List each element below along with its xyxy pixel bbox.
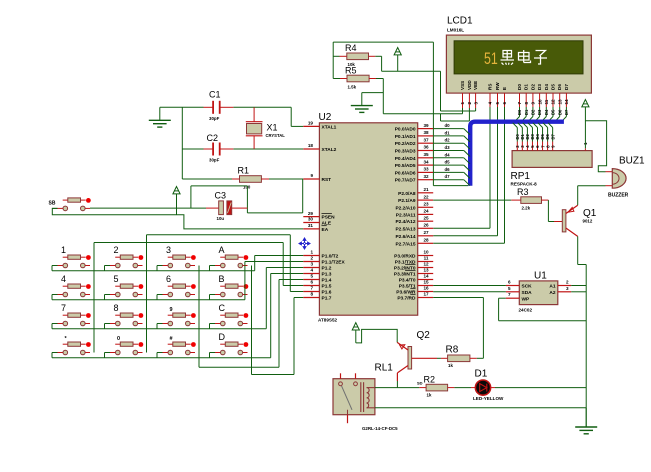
U2 pin 32 P0.7/AD7 [418,179,434,181]
svg-text:B: B [219,274,225,284]
svg-text:D3: D3 [537,109,542,115]
ground (C1/C2 common) [159,107,161,120]
svg-text:P3.7/RD: P3.7/RD [397,296,416,302]
svg-text:P2.2/A10: P2.2/A10 [395,205,415,211]
U2 pin 37 P0.2/AD2 [418,142,434,144]
resistor R1 [182,178,232,180]
wire keypad row rail 2 to P1.1 [51,295,53,300]
U2 pin 12 P3.2/INT0 [418,267,434,269]
power terminal VCC (RP1) [582,100,589,107]
U2 pin 1 P1.0/T2 [303,255,319,257]
svg-text:3: 3 [473,102,478,105]
svg-text:2.2k: 2.2k [522,206,531,211]
svg-text:RESPACK-8: RESPACK-8 [511,182,538,187]
svg-text:0: 0 [117,336,120,342]
wire VCC to buzzer [585,121,606,172]
svg-text:SD: SD [417,381,423,386]
LCD pin D3 [539,93,541,107]
capacitor C3 [206,207,219,209]
svg-text:27: 27 [423,230,429,235]
svg-text:D6: D6 [557,84,562,90]
wire keypad row rail 3 to P1.2 [51,324,53,329]
svg-text:P3.0/RXD: P3.0/RXD [394,254,416,260]
svg-text:6: 6 [502,102,507,105]
svg-text:35: 35 [423,152,429,157]
U1 pin 5 SDA wire to P3.6 [433,291,506,293]
U2 pin 28 P2.7/A15 [418,242,434,244]
LCD pin D7 [565,93,567,107]
svg-text:30: 30 [308,217,314,222]
U2 pin 11 P3.1/TXD [418,261,434,263]
wire R4 junction [381,56,383,71]
svg-text:11: 11 [424,256,429,261]
svg-text:D4: D4 [544,84,549,90]
svg-text:D3: D3 [537,84,542,90]
U2 pin 4 P1.3 [303,273,319,275]
svg-text:d4: d4 [445,152,451,157]
RP1 pin 7 net D5 [542,142,544,151]
U2 pin 21 P2.0/A8 [418,192,434,194]
RP1 pin 1 common to VCC [584,148,586,150]
svg-text:#: # [170,336,173,342]
LCD pin D0 [519,93,521,107]
U2 pin 31 EA [303,228,319,230]
U2 pin 33 P0.6/AD6 [418,171,434,173]
wire R3 to Q1 base [547,200,549,221]
svg-text:C1: C1 [209,90,221,100]
svg-text:XTAL1: XTAL1 [322,124,337,130]
U2 pin 7 P1.6 [303,291,319,293]
svg-text:P1.2: P1.2 [322,266,332,272]
U2 pin 30 ALE [303,222,319,224]
crystal X1 [253,107,255,121]
wire P0.5 to bus, net d5 [433,164,464,166]
svg-text:D0: D0 [517,84,522,90]
svg-text:12: 12 [551,99,556,105]
buzzer BUZ1 [606,171,613,173]
U2 pin 16 P3.6/WR [418,291,434,293]
wire reset node box [302,179,304,213]
svg-text:U1: U1 [534,271,547,282]
push button key 2 [110,265,116,267]
bus (blue data bus) [470,122,564,186]
LCD pin D6 [559,93,561,107]
svg-text:P0.3/AD3: P0.3/AD3 [395,149,416,155]
svg-text:P3.4/T0: P3.4/T0 [399,278,416,284]
svg-text:D2: D2 [530,84,535,90]
svg-text:3: 3 [566,286,569,291]
svg-text:9: 9 [170,307,173,313]
svg-text:A1: A1 [549,284,555,290]
svg-text:7: 7 [517,102,522,105]
svg-text:R3: R3 [517,187,529,197]
svg-text:9: 9 [531,102,536,105]
svg-text:D7: D7 [564,109,569,115]
U1 pin 6 SCK wire to P3.5 [433,285,506,287]
LCD pin D1 [525,93,527,107]
svg-text:D1: D1 [475,369,488,380]
origin marker (blue compass) [299,238,310,249]
transistor Q2 [408,347,412,370]
svg-text:8: 8 [524,102,529,105]
svg-text:P1.7: P1.7 [322,296,332,302]
svg-text:11: 11 [544,99,549,104]
svg-text:8: 8 [310,292,313,297]
svg-text:CRYSTAL: CRYSTAL [266,133,286,138]
svg-text:C3: C3 [215,191,227,201]
resistor R4 [333,55,339,57]
wire VSS run [383,113,462,115]
svg-text:31: 31 [308,223,314,228]
wire keypad column 3 to P1.4 [198,266,200,368]
wire relay bottom row [375,407,586,409]
svg-text:C2: C2 [207,133,219,143]
resistor R5 [333,78,340,80]
svg-text:9: 9 [310,173,313,178]
svg-text:7: 7 [310,286,313,291]
U2 pin 3 P1.2 [303,267,319,269]
svg-text:SB: SB [49,201,56,207]
svg-text:P1.4: P1.4 [322,278,332,284]
svg-text:1: 1 [310,250,313,255]
svg-text:BUZ1: BUZ1 [619,156,645,167]
svg-text:P1.0/T2: P1.0/T2 [322,254,339,260]
svg-text:P0.7/AD7: P0.7/AD7 [395,178,416,184]
svg-text:RS: RS [488,84,493,90]
wire VEE run [440,71,442,111]
svg-text:2: 2 [566,280,569,285]
wire C2 row to XTAL2 [182,148,203,150]
svg-text:37: 37 [423,137,429,142]
LED D1 LED-YELLOW [471,387,475,389]
svg-text:RL1: RL1 [375,363,394,374]
svg-text:2: 2 [310,256,313,261]
svg-text:33: 33 [423,167,429,172]
wire keypad column 2 to P1.6 [146,235,148,353]
U2 pin 22 P2.1/A9 [418,199,434,201]
push button key D [215,352,221,354]
U2 pin 35 P0.4/AD4 [418,157,434,159]
RP1 pin 4 net D2 [526,142,528,151]
power terminal VCC (LCD contrast) [394,48,401,55]
push button key A [215,265,221,267]
svg-text:9012: 9012 [583,219,593,224]
push button key 7 [58,323,64,325]
push button key C [215,323,221,325]
svg-text:P1.6: P1.6 [322,290,332,296]
RP1 pin 8 net D6 [547,142,549,151]
U2 pin 19 XTAL1 [303,125,319,127]
svg-text:P0.1/AD1: P0.1/AD1 [395,134,416,140]
svg-text:R2: R2 [424,375,436,385]
wire VCC to Q2 emitter [356,329,397,343]
wire keypad row rail 1 to P1.0 [51,266,53,271]
svg-text:Q1: Q1 [583,208,597,219]
svg-text:1k: 1k [427,393,432,398]
push button key B [215,294,221,296]
svg-text:P3.3/INT1: P3.3/INT1 [394,272,416,278]
wire P0.0 to bus, net d0 [433,128,464,130]
LCD pin VSS [462,93,464,108]
svg-text:P0.4/AD4: P0.4/AD4 [395,156,416,162]
svg-text:4: 4 [310,268,313,273]
svg-text:P0.2/AD2: P0.2/AD2 [395,141,416,147]
U1 pin 3 A2 [558,291,571,293]
svg-text:1: 1 [460,102,465,105]
U2 pin 9 RST [303,178,319,180]
wire relay coil row to R2 [375,387,419,389]
LCD pin E wire to P2.7 [504,93,506,107]
svg-text:G2RL-14-CF-DC5: G2RL-14-CF-DC5 [362,426,398,431]
svg-text:d6: d6 [445,167,451,172]
svg-text:24: 24 [423,209,429,214]
svg-text:d3: d3 [445,145,451,150]
LCD text dian (electric) glyph [519,50,531,63]
push button key 0 [110,352,116,354]
svg-text:P2.4/A12: P2.4/A12 [395,219,415,225]
push button SB [58,207,64,209]
svg-text:LM016L: LM016L [447,28,464,33]
wire Q2 base to R8 [412,357,437,359]
U2 pin 2 P1.1/T2EX [303,261,319,263]
svg-text:10: 10 [423,250,429,255]
wire VDD run [440,114,442,121]
U2 pin 36 P0.3/AD3 [418,150,434,152]
svg-text:23: 23 [423,202,429,207]
wire P0.3 to bus, net d3 [433,150,464,152]
svg-text:P0.6/AD6: P0.6/AD6 [395,170,416,176]
LCD pin D4 [545,93,547,107]
push button key # [163,352,169,354]
svg-text:X1: X1 [267,123,278,133]
svg-text:VSS: VSS [460,81,465,90]
svg-text:3: 3 [166,245,171,255]
svg-text:6: 6 [508,280,511,285]
svg-text:D1: D1 [524,84,529,90]
svg-text:Q2: Q2 [417,330,431,341]
svg-text:RST: RST [322,177,332,183]
push button key 6 [163,294,169,296]
wire P0.6 to bus, net d6 [433,171,464,173]
U2 pin 24 P2.3/A11 [418,213,434,215]
svg-text:6: 6 [166,274,171,284]
svg-text:R8: R8 [446,345,459,356]
capacitor C1 [204,106,213,108]
svg-text:D7: D7 [564,84,569,90]
ground (main right) [585,408,587,427]
wire SB row to C3 [90,207,206,209]
U2 pin 5 P1.4 [303,279,319,281]
power terminal VCC (Q2) [352,323,359,330]
wire P0.4 to bus, net d4 [433,157,464,159]
resistor pack RP1 RESPACK-8 body [512,151,592,168]
svg-text:13: 13 [423,268,429,273]
LCD pin D5 [552,93,554,107]
U2 pin 18 XTAL2 [303,148,319,150]
wire P0.7 to bus, net d7 [433,179,464,181]
push button key 5 [110,294,116,296]
svg-text:D0: D0 [517,109,522,115]
svg-text:PSEN: PSEN [322,215,336,221]
RP1 pin 9 net D7 [552,142,554,151]
svg-text:d1: d1 [445,130,451,135]
svg-text:6: 6 [310,280,313,285]
svg-text:D1: D1 [524,109,529,115]
svg-text:5: 5 [495,102,500,105]
power terminal VCC (reset) [173,187,180,194]
svg-text:R5: R5 [345,66,357,76]
wire Q1 collector to rail [577,236,579,264]
svg-text:RP1: RP1 [511,171,531,182]
U2 pin 26 P2.5/A13 [418,227,434,229]
svg-text:P0.5/AD5: P0.5/AD5 [395,163,416,169]
wire P0.2 to bus, net d2 [433,142,464,144]
U2 pin 38 P0.1/AD1 [418,135,434,137]
svg-text:E: E [502,87,507,90]
svg-text:18: 18 [308,143,314,148]
push button key 9 [163,323,169,325]
svg-text:A2: A2 [549,290,555,296]
RP1 pin 3 net D1 [521,142,523,151]
svg-text:2: 2 [467,102,472,105]
svg-text:39: 39 [423,123,429,128]
svg-text:26: 26 [423,223,429,228]
svg-text:1: 1 [61,245,66,255]
svg-text:8: 8 [114,303,119,313]
svg-text:D6: D6 [557,109,562,115]
RP1 pin 5 net D3 [531,142,533,151]
svg-text:D5: D5 [551,109,556,115]
svg-text:P2.5/A13: P2.5/A13 [395,226,415,232]
svg-text:P2.0/A8: P2.0/A8 [398,191,416,197]
svg-text:P1.3: P1.3 [322,272,332,278]
svg-text:15: 15 [423,280,429,285]
U2 pin 17 P3.7/RD [418,297,434,299]
svg-text:5: 5 [508,286,511,291]
svg-text:SDA: SDA [522,290,533,296]
svg-text:3: 3 [310,262,313,267]
svg-text:D2: D2 [531,109,536,115]
U2 pin 8 P1.7 [303,297,319,299]
svg-text:30pF: 30pF [209,116,220,121]
svg-text:d7: d7 [445,174,451,179]
resistor R8 [441,357,448,359]
svg-text:R1: R1 [238,166,250,176]
svg-text:4: 4 [488,102,493,105]
svg-text:P1.1/T2EX: P1.1/T2EX [322,260,346,266]
svg-text:17: 17 [423,292,429,297]
push button key 8 [110,323,116,325]
wire keypad row rail 4 to P1.3 [51,353,53,358]
svg-text:30pF: 30pF [209,158,220,163]
svg-text:C: C [219,303,226,313]
svg-text:d5: d5 [445,160,451,165]
svg-text:38: 38 [423,130,429,135]
svg-text:14: 14 [564,99,569,105]
push button key * [58,352,64,354]
svg-text:22: 22 [423,194,429,199]
svg-text:4: 4 [61,274,66,284]
U1 pin 2 A1 [558,285,571,287]
svg-text:21: 21 [423,187,429,192]
svg-text:29: 29 [308,211,314,216]
svg-text:AT89S52: AT89S52 [318,318,338,323]
svg-text:24C02: 24C02 [519,308,533,313]
capacitor C2 [204,148,213,150]
svg-text:XTAL2: XTAL2 [322,147,337,153]
wire R5 junction down [382,79,384,114]
svg-text:5: 5 [114,274,119,284]
wire P3.7 to R8 [433,297,483,299]
wire buzzer to Q1 emitter [578,185,606,187]
svg-text:25: 25 [423,215,429,220]
wire keypad column 1 to P1.5 [93,243,95,353]
RP1 pin 2 net D0 [516,142,518,151]
push button key 4 [58,294,64,296]
svg-text:7: 7 [508,292,511,297]
U2 pin 25 P2.4/A12 [418,220,434,222]
U2 pin 10 P3.0/RXD [418,255,434,257]
transistor Q1 9012 [554,221,562,223]
U2 pin 14 P3.4/T0 [418,279,434,281]
svg-text:13: 13 [557,99,562,105]
svg-text:5: 5 [310,274,313,279]
svg-text:P2.6/A14: P2.6/A14 [395,234,415,240]
U2 pin 13 P3.3/INT1 [418,273,434,275]
svg-text:7: 7 [61,303,66,313]
LCD pin RW wire to P2.6 [497,93,499,107]
LCD text hei (black) glyph [501,51,515,65]
U2 pin 34 P0.5/AD5 [418,164,434,166]
svg-text:SCK: SCK [522,284,533,290]
svg-text:U2: U2 [319,112,332,123]
LCD pin VDD [468,93,470,108]
svg-text:BUZZER: BUZZER [608,193,629,199]
svg-text:D7: D7 [550,133,555,139]
svg-text:EA: EA [322,227,329,233]
svg-text:19: 19 [308,121,314,126]
svg-text:32: 32 [423,174,429,179]
U2 pin 23 P2.2/A10 [418,206,434,208]
svg-text:P0.0/AD0: P0.0/AD0 [395,127,416,133]
wire right ground rail [585,265,587,428]
svg-text:d2: d2 [445,138,451,143]
svg-text:28: 28 [423,238,429,243]
U2 pin 39 P0.0/AD0 [418,128,434,130]
svg-text:LED-YELLOW: LED-YELLOW [473,396,504,401]
LCD pin D2 [532,93,534,107]
svg-text:VEE: VEE [473,81,478,90]
wire rail down right side [432,42,434,186]
RP1 pin 6 net D4 [537,142,539,151]
svg-text:R4: R4 [345,43,357,53]
svg-text:34: 34 [423,159,429,164]
svg-text:A: A [219,245,225,255]
LCD text zi (child) glyph [534,51,547,65]
svg-text:RW: RW [495,82,500,90]
svg-text:16: 16 [423,286,429,291]
svg-text:10u: 10u [217,216,225,221]
svg-text:14: 14 [423,274,429,279]
svg-text:D5: D5 [551,84,556,90]
wire P0.1 to bus, net d1 [433,135,464,137]
svg-text:D: D [219,332,226,342]
svg-text:1k: 1k [448,363,453,368]
U2 pin 29 PSEN [303,216,319,218]
resistor R3 wire from P2.1 [433,199,511,201]
svg-text:10: 10 [537,99,542,105]
svg-text:d0: d0 [445,123,451,128]
